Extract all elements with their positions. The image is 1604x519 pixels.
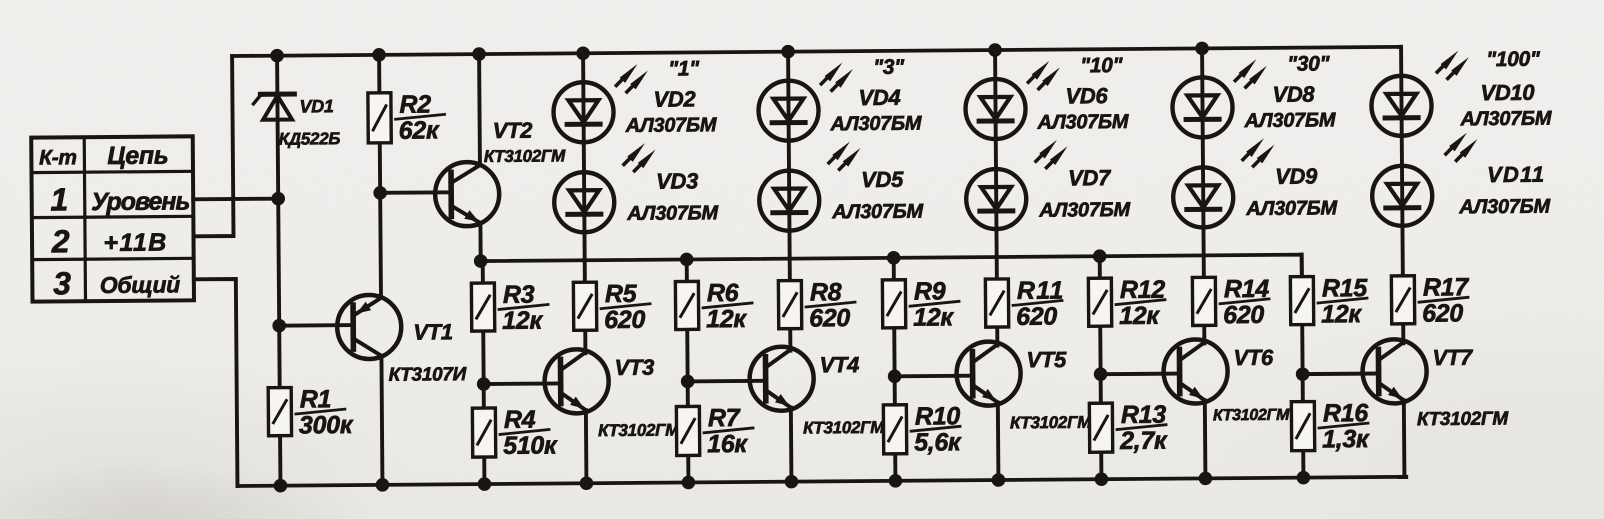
- LED VD10: [1371, 76, 1431, 136]
- label VT4: [819, 352, 859, 377]
- svg-text:620: 620: [604, 306, 645, 334]
- svg-text:VD8: VD8: [1272, 82, 1315, 107]
- LED VD8: [1172, 77, 1232, 137]
- node VT6 emitter ground: [1199, 472, 1213, 486]
- label VD2: [653, 86, 696, 111]
- label VD6 level: [1080, 54, 1124, 77]
- wire VD6-VD7 column: [995, 50, 997, 345]
- svg-text:Уровень: Уровень: [91, 187, 190, 216]
- label VD2 level: [668, 57, 700, 80]
- label VD1: [299, 96, 334, 116]
- resistor R2: [368, 93, 391, 143]
- svg-text:620: 620: [809, 304, 850, 332]
- wire VT3 emitter: [584, 410, 588, 483]
- table row 3 net Obshchij: [100, 271, 181, 298]
- svg-text:VT5: VT5: [1026, 347, 1067, 372]
- label KT3107I: [389, 364, 467, 386]
- table row 1 net Uroven: [91, 187, 190, 216]
- svg-text:VT1: VT1: [413, 319, 453, 344]
- wire VD8-VD9 column: [1202, 48, 1204, 343]
- LED VD11 arrows: [1446, 133, 1478, 161]
- LED VD5 arrows: [829, 141, 861, 169]
- label VD8 level: [1287, 52, 1331, 75]
- wire VT7 emitter: [1402, 400, 1407, 476]
- transistor VT2: [435, 162, 500, 227]
- ground rail: [237, 477, 1406, 486]
- label VD11 AL307BM: [1458, 196, 1551, 219]
- wire VT6 emitter: [1203, 400, 1208, 478]
- table row 1 pin: [50, 181, 68, 217]
- label VT3: [614, 355, 654, 380]
- resistor R6: [675, 281, 698, 329]
- wire VT5 emitter: [996, 403, 1001, 480]
- svg-text:КТ3102ГМ: КТ3102ГМ: [1417, 408, 1510, 430]
- svg-text:62к: 62к: [399, 116, 440, 144]
- node VD4 top rail: [781, 45, 795, 59]
- wire R15 divider column: [1302, 255, 1304, 478]
- label VD5: [861, 167, 904, 192]
- resistor R15: [1290, 277, 1313, 325]
- resistor R12: [1088, 278, 1111, 326]
- svg-text:VT7: VT7: [1432, 345, 1474, 370]
- svg-text:АЛ307БМ: АЛ307БМ: [626, 202, 719, 225]
- svg-text:R6: R6: [707, 279, 740, 307]
- label VT7: [1432, 345, 1474, 370]
- LED VD2 arrows: [616, 64, 648, 92]
- label R14 620: [1220, 275, 1270, 329]
- node VT3 base: [477, 377, 491, 391]
- svg-text:"10": "10": [1080, 54, 1124, 77]
- wire R12 divider column: [1100, 256, 1102, 479]
- LED VD5: [759, 170, 819, 230]
- wire VD2-VD3 column: [583, 53, 585, 353]
- label R2 62k: [395, 90, 444, 144]
- label R17 620: [1419, 273, 1470, 327]
- svg-text:АЛ307БМ: АЛ307БМ: [625, 114, 718, 137]
- svg-text:КТ3102ГМ: КТ3102ГМ: [1010, 413, 1092, 433]
- resistor R8: [778, 281, 801, 329]
- svg-text:620: 620: [1422, 299, 1463, 327]
- node VT2 collector top rail: [472, 47, 486, 61]
- node R2 top rail: [372, 48, 386, 62]
- resistor R14: [1192, 277, 1215, 325]
- resistor R7: [676, 406, 699, 455]
- resistor R16: [1291, 402, 1314, 451]
- svg-text:R5: R5: [605, 280, 638, 308]
- svg-text:VD4: VD4: [858, 85, 900, 110]
- wire Obshchij riser: [194, 279, 238, 486]
- label R5 620: [601, 280, 650, 334]
- node VD8 top rail: [1195, 42, 1209, 56]
- label R3 12к: [499, 281, 548, 335]
- wire VT1 base: [279, 323, 353, 327]
- label R11 620: [1013, 276, 1065, 330]
- svg-text:АЛ307БМ: АЛ307БМ: [831, 201, 924, 224]
- svg-text:КД522Б: КД522Б: [279, 129, 341, 148]
- resistor R1: [268, 388, 291, 436]
- wire VT6 base: [1101, 372, 1180, 377]
- wire VT7 base: [1303, 372, 1379, 376]
- svg-text:R7: R7: [708, 404, 741, 432]
- resistor R13: [1089, 403, 1112, 452]
- svg-text:12к: 12к: [1321, 300, 1362, 328]
- svg-text:АЛ307БМ: АЛ307БМ: [1458, 196, 1551, 219]
- LED VD3 arrows: [624, 143, 656, 171]
- svg-text:620: 620: [1016, 303, 1057, 331]
- svg-text:12к: 12к: [1119, 302, 1160, 330]
- node R7 ground: [682, 476, 696, 490]
- label VT5: [1026, 347, 1067, 372]
- svg-text:АЛ307БМ: АЛ307БМ: [1245, 197, 1338, 220]
- LED VD4 arrows: [821, 62, 853, 90]
- node VT5 base: [888, 369, 902, 383]
- node VT3 emitter ground: [580, 476, 594, 490]
- wire VT2 emitter: [478, 223, 482, 261]
- wire VT4 emitter: [789, 408, 793, 482]
- LED VD7: [966, 169, 1026, 229]
- VT2 emitter bus: [481, 255, 1302, 283]
- wire VT1 collector: [381, 356, 382, 485]
- svg-text:"1": "1": [668, 57, 700, 80]
- wire VT3 base: [484, 381, 561, 386]
- resistor R9: [882, 280, 905, 328]
- wire R9 divider column: [894, 258, 896, 481]
- node R6 bus: [680, 253, 694, 267]
- label VD3: [656, 168, 698, 193]
- label KT3102GM VT3: [598, 421, 680, 441]
- table row 2 net +11V: [103, 229, 167, 258]
- node VD2 top rail: [576, 46, 590, 60]
- label KT3102GM VT2: [484, 146, 566, 166]
- LED VD2: [553, 82, 613, 142]
- wire +11V riser: [192, 56, 233, 236]
- LED VD9 arrows: [1243, 138, 1275, 166]
- svg-text:R8: R8: [810, 278, 842, 306]
- svg-text:КТ3107И: КТ3107И: [389, 364, 467, 386]
- svg-text:620: 620: [1223, 301, 1264, 329]
- label VD4: [858, 85, 900, 110]
- resistor R4: [472, 408, 495, 457]
- resistor R5: [573, 282, 596, 330]
- LED VD7 arrows: [1036, 140, 1068, 168]
- resistor R10: [883, 405, 906, 454]
- node VD6 top rail: [988, 43, 1002, 57]
- label VD5 AL307BM: [831, 201, 924, 224]
- node Uroven junction: [271, 192, 285, 206]
- label KT3102GM VT5: [1010, 413, 1092, 433]
- label R4 510к: [500, 405, 558, 459]
- svg-text:VD5: VD5: [861, 167, 904, 192]
- svg-text:12к: 12к: [706, 305, 747, 333]
- svg-text:АЛ307БМ: АЛ307БМ: [1037, 111, 1130, 134]
- LED VD4: [758, 80, 818, 140]
- node VT4 emitter ground: [785, 475, 799, 489]
- label VD9: [1275, 163, 1318, 188]
- LED VD10 arrows: [1437, 51, 1469, 79]
- LED VD11: [1372, 166, 1432, 226]
- wire VT4 base: [688, 379, 766, 384]
- svg-text:КТ3102ГМ: КТ3102ГМ: [1213, 407, 1290, 425]
- table row 3 pin: [53, 265, 71, 301]
- node R12 bus: [1093, 249, 1107, 263]
- node VT6 base: [1094, 367, 1108, 381]
- node R10 ground: [889, 474, 903, 488]
- label VD2 AL307BM: [625, 114, 718, 137]
- resistor R11: [985, 279, 1008, 327]
- svg-text:VD10: VD10: [1480, 80, 1535, 105]
- label KT3102GM VT7: [1417, 408, 1510, 430]
- node R4 ground: [478, 477, 492, 491]
- label VD3 AL307BM: [626, 202, 719, 225]
- label VD11: [1487, 162, 1545, 187]
- svg-text:КТ3102ГМ: КТ3102ГМ: [803, 418, 885, 438]
- svg-text:VD3: VD3: [656, 168, 698, 193]
- wire R3 divider column: [483, 261, 485, 484]
- transistor VT3: [544, 349, 609, 414]
- svg-text:R4: R4: [504, 406, 536, 434]
- svg-text:2,7к: 2,7к: [1119, 427, 1168, 455]
- svg-text:VD9: VD9: [1275, 163, 1318, 188]
- wire VD4-VD5 column: [788, 52, 790, 351]
- wire VD1-R1 column: [277, 56, 280, 486]
- connector table frame: [31, 136, 194, 301]
- top +11V rail: [232, 47, 1401, 56]
- transistor VT6: [1163, 339, 1228, 404]
- table row 2 pin: [51, 223, 70, 259]
- svg-text:АЛ307БМ: АЛ307БМ: [1038, 199, 1131, 222]
- label VD4 AL307BM: [830, 113, 923, 136]
- node VT1 base junction: [272, 319, 286, 333]
- label VT6: [1233, 345, 1274, 370]
- label VD7: [1068, 165, 1112, 190]
- transistor VT5: [956, 341, 1021, 406]
- svg-text:R1: R1: [300, 385, 332, 413]
- node VT5 emitter ground: [992, 473, 1006, 487]
- node VD1 top rail: [270, 49, 284, 63]
- svg-text:VD7: VD7: [1068, 165, 1112, 190]
- wire VT2 base: [380, 190, 451, 194]
- label R12 12к: [1116, 276, 1166, 330]
- wire VD10-VD11 column: [1401, 47, 1403, 343]
- label KT3102GM VT4: [803, 418, 885, 438]
- svg-text:R9: R9: [914, 277, 946, 305]
- label KT3102GM VT6: [1213, 407, 1290, 425]
- svg-text:"3": "3": [873, 56, 905, 79]
- svg-text:12к: 12к: [502, 307, 543, 335]
- label R15 12к: [1318, 274, 1369, 328]
- wire VT2 collector: [477, 54, 482, 165]
- svg-text:Общий: Общий: [100, 271, 181, 298]
- svg-text:3: 3: [53, 265, 71, 301]
- svg-text:АЛ307БМ: АЛ307БМ: [830, 113, 923, 136]
- svg-text:R3: R3: [503, 281, 535, 309]
- label R1 300k: [296, 385, 354, 439]
- svg-text:1: 1: [50, 181, 68, 217]
- label R9 12к: [910, 277, 959, 331]
- svg-text:"30": "30": [1287, 52, 1331, 75]
- node VT1 collector ground: [376, 478, 390, 492]
- table header Cep': [107, 142, 168, 170]
- svg-text:5,6к: 5,6к: [914, 428, 962, 456]
- label VD6 AL307BM: [1037, 111, 1130, 134]
- label VT1: [413, 319, 453, 344]
- label VD8: [1272, 82, 1315, 107]
- resistor R17: [1391, 276, 1414, 324]
- svg-text:2: 2: [51, 223, 70, 259]
- label VD10: [1480, 80, 1535, 105]
- node R16 ground: [1297, 471, 1311, 485]
- svg-text:КТ3102ГМ: КТ3102ГМ: [484, 146, 566, 166]
- svg-text:"100": "100": [1486, 48, 1541, 71]
- node R9 bus: [887, 251, 901, 265]
- svg-text:VT4: VT4: [819, 352, 859, 377]
- node VT4 base: [681, 375, 695, 389]
- svg-text:VD2: VD2: [653, 86, 696, 111]
- svg-text:+11В: +11В: [103, 229, 167, 258]
- diode VD1: [253, 94, 294, 120]
- label VD6: [1065, 83, 1108, 108]
- LED VD6: [965, 79, 1025, 139]
- transistor VT7: [1362, 339, 1427, 404]
- label VD4 level: [873, 56, 905, 79]
- label R13 2,7к: [1117, 401, 1168, 455]
- label VD7 AL307BM: [1038, 199, 1131, 222]
- svg-text:КТ3102ГМ: КТ3102ГМ: [598, 421, 680, 441]
- LED VD6 arrows: [1028, 61, 1060, 89]
- svg-text:VD11: VD11: [1487, 162, 1545, 187]
- svg-text:АЛ307БМ: АЛ307БМ: [1244, 109, 1337, 132]
- LED VD9: [1173, 167, 1233, 227]
- node R2-VT1-VT2 junction: [373, 186, 387, 200]
- svg-text:510к: 510к: [503, 431, 558, 459]
- resistor R3: [471, 283, 494, 331]
- node VT7 base: [1296, 367, 1310, 381]
- svg-text:Цепь: Цепь: [107, 142, 168, 170]
- wire R2 column: [379, 55, 381, 296]
- label VD8 AL307BM: [1244, 109, 1337, 132]
- label VD10 level: [1486, 48, 1541, 71]
- LED VD8 arrows: [1235, 59, 1267, 87]
- svg-text:300к: 300к: [299, 411, 354, 439]
- svg-text:12к: 12к: [913, 303, 954, 331]
- label VD10 AL307BM: [1460, 108, 1553, 131]
- node R1 ground: [274, 479, 288, 493]
- svg-text:VD1: VD1: [299, 96, 334, 116]
- transistor VT4: [749, 346, 814, 411]
- node VT2 emitter bus: [474, 254, 488, 268]
- svg-text:VT6: VT6: [1233, 345, 1274, 370]
- label R8 620: [806, 278, 855, 332]
- label R6 12к: [703, 279, 752, 333]
- LED VD3: [554, 172, 614, 232]
- node R13 ground: [1095, 472, 1109, 486]
- table header K-t: [39, 146, 77, 169]
- svg-text:1,3к: 1,3к: [1322, 425, 1370, 453]
- svg-text:16к: 16к: [707, 430, 748, 458]
- wire R6 divider column: [687, 259, 689, 482]
- wire VT5 base: [895, 374, 973, 379]
- svg-text:АЛ307БМ: АЛ307БМ: [1460, 108, 1553, 131]
- svg-text:R2: R2: [399, 90, 431, 118]
- label VT2: [493, 118, 534, 143]
- svg-text:VT3: VT3: [614, 355, 654, 380]
- wire Uroven input: [193, 197, 278, 202]
- transistor VT1: [337, 295, 402, 360]
- label KD522B: [279, 129, 341, 148]
- svg-text:К-т: К-т: [39, 146, 77, 169]
- label R7 16к: [704, 404, 753, 458]
- svg-text:VT2: VT2: [493, 118, 534, 143]
- label R16 1,3к: [1319, 399, 1370, 453]
- label R10 5,6к: [911, 402, 962, 456]
- svg-text:VD6: VD6: [1065, 83, 1108, 108]
- label VD9 AL307BM: [1245, 197, 1338, 220]
